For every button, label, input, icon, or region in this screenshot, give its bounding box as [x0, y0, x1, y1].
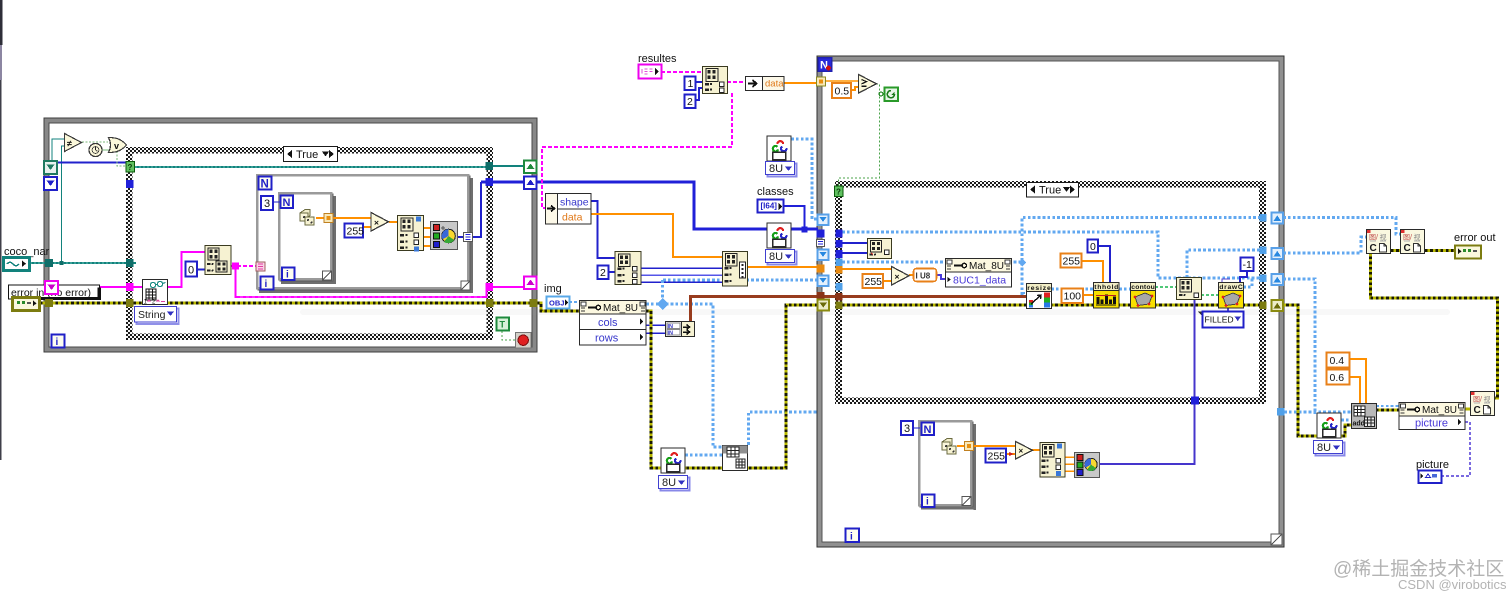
wire: small loop orange dice out: [957, 445, 1015, 447]
wire: teal string inside case1 to right border: [133, 166, 488, 168]
wire: blue shape out down to index icon B: [591, 201, 615, 258]
tunnel blue 2: [817, 230, 825, 238]
svg-text:i: i: [56, 337, 59, 348]
case2 left border tunnel squares: [836, 230, 843, 238]
tunnel orange small loop border: [965, 442, 974, 451]
constant 100: [1062, 289, 1084, 304]
tunnel olive down 8: [818, 300, 830, 311]
wire: cyan 8U icon to table icon: [685, 454, 723, 457]
big for loop (right): [817, 56, 1284, 547]
wire: cyan row y262 to vertical x1022: [842, 261, 1022, 264]
index array icon A (resultes): [703, 67, 728, 94]
case1 teal tunnel left: [126, 259, 134, 267]
tunnel small coerce 3: [817, 240, 825, 247]
tunnel magenta on N-loop border: [256, 262, 265, 271]
wire: pale green dotted neq output to Or gate: [82, 141, 108, 143]
terminal classes I64: [758, 200, 784, 213]
wire: green dotted T const to stop button: [502, 331, 516, 340]
svg-text:0: 0: [188, 265, 194, 277]
constant -1: [1241, 258, 1254, 272]
case structure 1 border: [126, 147, 493, 340]
wire: magenta case1 tunnel to while SR: [493, 286, 524, 288]
wire: -1 down to drawC top: [1240, 271, 1247, 284]
svg-text:×: ×: [1019, 447, 1024, 456]
small loop i terminal: [922, 495, 935, 508]
svg-text:1: 1: [688, 78, 694, 90]
dice icon (left): [300, 210, 314, 226]
wire: cyan thhold to contour: [1119, 288, 1131, 291]
wire: 255d to multiply3: [1006, 453, 1015, 455]
dropdown 8U 2: [766, 250, 797, 265]
svg-text:data: data: [562, 212, 583, 224]
svg-text:2: 2: [687, 96, 693, 108]
wire: cyan table icon up and right to loop border: [749, 412, 819, 445]
shift register green up (while right): [524, 161, 537, 174]
dispose icon 1: [1367, 230, 1391, 255]
Or gate V: [109, 138, 127, 153]
gte comparator: [859, 75, 877, 94]
shift register blue up (while right): [524, 177, 537, 190]
wire: 255b to multiply2: [884, 280, 892, 282]
terminal img OBJ: [547, 297, 570, 309]
wire: olive error right: loop tunnel down around to add icon: [1281, 305, 1352, 436]
case1 olive tunnel right: [486, 299, 494, 307]
dropdown 8U 1: [766, 162, 797, 177]
wire: 0.5 to gte lower input: [851, 87, 860, 90]
constant 255c: [1061, 254, 1082, 268]
svg-text:3: 3: [904, 423, 910, 435]
wire: orange data to big loop tunnel: [784, 82, 818, 84]
svg-text:cols: cols: [598, 317, 618, 329]
wire: magenta error-cluster SR row into case: [56, 286, 144, 288]
svg-text:Mat_8U: Mat_8U: [1422, 405, 1457, 416]
svg-text:shape: shape: [560, 197, 589, 209]
svg-text:i: i: [850, 532, 853, 543]
big loop right border tunnels (up arrows): [1272, 213, 1284, 224]
constant 0b: [1088, 240, 1099, 254]
wire: cyan drawC out joining row: [1243, 278, 1252, 287]
constant 1: [685, 77, 696, 91]
wire: blue tunnels to small icon F: [842, 243, 868, 253]
svg-text:≠: ≠: [67, 139, 72, 149]
inner frame i terminal: [282, 268, 295, 281]
tunnel olive error (while right): [530, 299, 538, 307]
wire: cyan icon C bottom-row to loop tunnel: [663, 279, 818, 282]
tunnel teal coco (while left): [45, 259, 53, 267]
RGB-to-color clock icon (left): [431, 222, 458, 250]
wire: magenta String icon to index chain (up and right): [167, 252, 205, 287]
svg-text:picture: picture: [1416, 459, 1449, 471]
svg-text:OBJ: OBJ: [549, 299, 564, 308]
multiply2 triangle: [892, 267, 910, 286]
colormode icon 1: [767, 136, 791, 161]
svg-text:255: 255: [865, 276, 883, 288]
terminal error in: [13, 298, 40, 311]
wire: olive icon2 to error out: [1425, 249, 1455, 252]
dispose icon 2: [1401, 230, 1425, 255]
wire: orange inside loop to gte: [825, 80, 860, 82]
shift register teal down (while left): [44, 161, 57, 174]
svg-text:255: 255: [1063, 256, 1081, 268]
wire: magenta down to bottom run across case1: [236, 266, 487, 297]
wire: teal branch up to neq input: [62, 146, 67, 263]
svg-text:i: i: [286, 270, 289, 281]
svg-text:v: v: [114, 141, 119, 151]
case1 magenta tunnel left: [126, 283, 134, 291]
colormode icon 2: [767, 223, 791, 248]
case2 right border junctions: [1260, 214, 1267, 222]
wire: cyan loop-bottom tunnel row 412 to add icon: [1284, 411, 1352, 414]
svg-text:True: True: [1039, 185, 1061, 197]
case1 teal tunnel right: [486, 162, 494, 170]
scan from string icon: [143, 280, 168, 306]
wire: green icon D to drawC: [1201, 294, 1219, 296]
svg-text:100: 100: [1064, 291, 1082, 303]
wire: orange dice to tunnel to multiply: [316, 217, 372, 219]
svg-text:i: i: [265, 279, 268, 290]
while loop i terminal: [52, 335, 65, 349]
svg-text:255: 255: [988, 451, 1006, 463]
inner sequence frame (dice loop): [279, 193, 336, 284]
case1 magenta tunnel right: [486, 283, 494, 291]
svg-text:FILLED: FILLED: [1205, 315, 1234, 325]
while loop (left outer): [44, 118, 537, 352]
TRUE boolean constant: [497, 318, 510, 331]
wire: olive icon1 to icon2: [1391, 249, 1401, 252]
constant 255b: [863, 274, 884, 288]
wire: cyan img OBJ to Mat_8U node: [569, 301, 580, 303]
tunnel orange on inner frame border: [324, 214, 333, 223]
wire: multiply out to bundle icon: [389, 221, 398, 223]
wire: olive error row across case2: [842, 304, 1262, 307]
index icon B: [615, 252, 641, 285]
IN IN converter icon: [666, 322, 695, 337]
inner frame N terminal: [281, 196, 294, 210]
for loop N1 count terminal: [259, 177, 272, 191]
wire: classes terminal to column: [784, 206, 805, 229]
tunnel cyan down 1: [818, 215, 829, 226]
wire: constant 2 to index array: [694, 88, 703, 100]
wire: green dotted gte output down to case2 selector: [839, 84, 880, 187]
wire: olive error around bottom to big loop: [646, 305, 818, 468]
svg-text:IN: IN: [668, 331, 674, 337]
wire: 255 to multiply lower input: [362, 226, 371, 228]
String enum dropdown: [135, 307, 179, 325]
svg-text:-1: -1: [1243, 259, 1252, 271]
for loop N1 i terminal: [261, 277, 274, 291]
wire: olive add to Mat node3: [1376, 409, 1399, 412]
label error in (no error): [9, 285, 102, 300]
tunnel cyan down 6: [818, 276, 829, 287]
constant 3 (left): [261, 196, 280, 210]
svg-text:img: img: [544, 283, 562, 295]
svg-text:String: String: [138, 309, 166, 321]
wire: blue icon D bottom down to small loop output: [1099, 299, 1195, 464]
resize icon: [1027, 284, 1052, 309]
node: cyan junction x1022: [1018, 259, 1026, 267]
terminal coco path: [4, 258, 30, 271]
wire: cyan add icon to Mat node3: [1376, 405, 1399, 407]
wire: teal from shift register to neq upper input: [52, 139, 66, 162]
svg-text:error out: error out: [1454, 232, 1496, 244]
case2 selector ? tunnel: [835, 186, 844, 197]
index array icon (left case): [205, 246, 231, 275]
tunnel orange data (big loop left): [817, 77, 826, 86]
svg-text:?: ?: [128, 163, 133, 172]
svg-text:contou: contou: [1131, 284, 1155, 291]
svg-text:×: ×: [374, 218, 379, 228]
case 2 selector label True: [1027, 183, 1079, 198]
wire: teal continues outside case1 to while SR: [492, 165, 526, 167]
small icon F: [868, 239, 892, 259]
svg-text:True: True: [296, 149, 318, 161]
wire: multiply3 to bundle E: [1032, 449, 1040, 451]
wire: orange 0.6 to add icon: [1350, 377, 1360, 403]
wait-ms clock icon: [89, 144, 102, 157]
node: magenta junction diamond: [232, 263, 239, 270]
wire: dark blue from left SR to case selector row: [50, 161, 127, 163]
ghost watermark band: [300, 309, 1450, 315]
wire: teal coco_names from terminal through while+case borders: [29, 262, 136, 264]
wire: olive icon4 up-left to dispose icon1: [1371, 254, 1498, 398]
Mat_8U property node 3: [1399, 403, 1465, 430]
wire: orange data out right-down to icon C: [591, 214, 723, 257]
colormode icon bottom: [661, 448, 685, 473]
svg-text:0.6: 0.6: [1330, 372, 1345, 384]
svg-text:picture: picture: [1415, 418, 1448, 430]
wire: green contour to icon D: [1155, 286, 1177, 288]
wire: brown row into resize: [842, 295, 1027, 298]
wire: violet picture out down to picture terminal: [1442, 422, 1470, 476]
svg-text:Mat_8U: Mat_8U: [603, 303, 638, 314]
node: teal junction dot: [60, 261, 64, 265]
wire: bundle to color box 3 oranges: [424, 228, 432, 246]
dice icon small loop: [942, 439, 956, 455]
wire: constant 0b down to thhold top: [1097, 246, 1110, 284]
wire: orange tunnel row to multiply2: [842, 268, 892, 270]
bundle icon E: [1040, 443, 1065, 478]
wire: IU8 to Mat node2 8UC1_data: [936, 275, 946, 279]
node: blue junction: [802, 227, 808, 233]
for loop N1 (left): [257, 175, 473, 293]
Mat_8U property node 2: [946, 259, 1012, 288]
wire: 255c right-down to thhold top: [1082, 261, 1103, 284]
svg-text:classes: classes: [757, 186, 794, 198]
wire: cyan long row y232 inside case2: [842, 232, 1262, 278]
wire: multiply2 out to IU8 coerce: [909, 274, 914, 276]
svg-text:2: 2: [600, 267, 606, 279]
wire: magenta down-left-down to shape/data cluster: [542, 93, 732, 208]
wire: cyan row 279 tunnel down to colormode3: [1283, 279, 1315, 414]
shift register blue down (while left): [44, 177, 57, 190]
index icon D: [1177, 278, 1202, 300]
wire: 100 to thhold left: [1083, 294, 1094, 296]
loop iteration feedback icon: [879, 88, 898, 102]
wire: bundle E to colorclock2 oranges: [1065, 457, 1075, 471]
bundle icon (left): [398, 216, 424, 252]
add weighted icon: [1352, 404, 1377, 429]
svg-text:N: N: [283, 197, 291, 209]
svg-text:?: ?: [836, 188, 841, 197]
wire: main blue array line y182: [481, 182, 818, 229]
constant 255d: [986, 449, 1007, 463]
svg-text:T: T: [500, 320, 506, 330]
left screen-edge line: [0, 0, 3, 45]
table icon (rows cols grid): [723, 446, 748, 471]
wire: cyan colormode3 to add icon: [1341, 419, 1352, 422]
wire: magenta index output to inner loop tunnel: [231, 265, 259, 267]
wire: icon B to icon C triple lines: [641, 267, 723, 269]
wire: cyan icon1 colormode top to loop tunnel: [791, 139, 818, 219]
wire: cyan row 217 tunnel to dispose icon2: [1283, 218, 1401, 235]
wire: brown IN icon up to resize row: [691, 297, 1028, 324]
stop button: [516, 333, 532, 349]
dispose icon 4: [1471, 392, 1495, 417]
wire: constant 2b to icon B: [608, 271, 615, 273]
IU8 coerce box: [914, 269, 937, 282]
svg-text:resize: resize: [1027, 285, 1051, 292]
wire: cyan Mat node out right then down to table icon: [646, 304, 723, 447]
case1 selector ? tunnel: [126, 162, 135, 173]
drawC icon: [1219, 283, 1244, 309]
wire: clock to Or gate: [101, 149, 109, 151]
tunnel blue coerce on N-loop right border: [464, 233, 473, 242]
small for loop (bottom): [919, 421, 976, 510]
case 1 selector label True: [284, 147, 338, 162]
svg-text:×: ×: [895, 272, 900, 282]
FILLED enum dropdown: [1198, 312, 1244, 328]
RGB-to-color clock icon 2: [1075, 453, 1100, 478]
wire: violet drawC top-left stub: [1222, 279, 1230, 284]
wire: olive Mat node3 to dispose icon4: [1465, 408, 1471, 411]
svg-text:CSDN @virobotics: CSDN @virobotics: [1398, 577, 1507, 592]
wire: olive error inside while loop: [40, 302, 488, 305]
svg-text:0.5: 0.5: [835, 86, 850, 98]
wire: olive error while to Mat node: [537, 303, 580, 311]
wire: olive error outside case1 to while border: [492, 302, 537, 305]
svg-text:thhold: thhold: [1094, 284, 1118, 291]
wire: cyan vertical x1022 with branches: [1022, 218, 1262, 296]
svg-text:N: N: [924, 424, 932, 436]
colormode icon 3: [1317, 413, 1341, 438]
svg-text:8UC1_data: 8UC1_data: [953, 275, 1006, 287]
thhold icon: [1094, 283, 1120, 309]
svg-text:I U8: I U8: [916, 272, 931, 281]
svg-text:N: N: [820, 60, 828, 72]
svg-text:Mat_8U: Mat_8U: [969, 261, 1004, 272]
wire: magenta resultes terminal to index array: [661, 71, 703, 73]
tunnel cyan down 4: [818, 250, 829, 261]
data unbundle node: [746, 77, 785, 91]
wire: constant 0 to index icon: [196, 269, 205, 271]
svg-text:drawC: drawC: [1219, 284, 1243, 291]
constant 2: [685, 95, 696, 109]
constant 0.4: [1327, 353, 1350, 368]
case1 blue tunnel left: [126, 180, 134, 188]
wire: cyan row 253 tunnel to dispose icon1: [1283, 237, 1367, 253]
constant 0.5: [832, 83, 851, 98]
svg-text:rows: rows: [595, 333, 619, 345]
tunnel orange 5: [817, 265, 825, 273]
wire: blue result through loop border up to main line: [458, 182, 481, 237]
constant 0.6: [1327, 370, 1350, 385]
svg-text:resultes: resultes: [638, 53, 677, 65]
node: big cyan junction dot: [657, 298, 669, 310]
wire: orange icon C out to loop tunnel: [747, 266, 818, 268]
constant 3 (bottom): [901, 421, 920, 435]
svg-text:0: 0: [1090, 241, 1096, 253]
svg-text:3: 3: [264, 198, 270, 210]
big loop N terminal: [818, 58, 832, 72]
constant 2b: [598, 266, 609, 280]
multiply3 triangle: [1016, 442, 1033, 460]
multiply triangle (left): [371, 213, 389, 232]
svg-text:IN: IN: [668, 324, 674, 330]
dropdown 8U 3: [1314, 441, 1345, 456]
shift register magenta down (while left): [45, 281, 58, 294]
svg-text:0.4: 0.4: [1330, 355, 1345, 367]
wire: magenta index array to data unbundle: [727, 81, 746, 83]
case structure 2 border: [835, 181, 1266, 404]
case1 blue tunnel right: [486, 178, 494, 186]
wire: blue cols/rows rows to IN icon: [646, 325, 666, 333]
neq compare triangle: [65, 134, 82, 152]
svg-text:N: N: [261, 179, 269, 191]
svg-text:i: i: [926, 497, 929, 508]
tunnel brown 7: [817, 292, 825, 300]
svg-text:data: data: [765, 79, 784, 90]
case1 olive tunnel left: [126, 299, 134, 307]
terminal picture indicator: [1419, 471, 1442, 484]
Mat_8U property node 1: [580, 301, 647, 346]
wire: FILLED up to drawC: [1227, 307, 1229, 311]
svg-text:add: add: [1353, 421, 1365, 428]
small loop N terminal: [922, 423, 935, 437]
tunnel cyan on big loop right border y412: [1277, 408, 1285, 416]
terminal error out: [1455, 246, 1481, 259]
shape/data unbundle node: [546, 194, 592, 225]
wire: cyan vertical from OBJ row dot up: [661, 280, 664, 304]
constant 255 (left): [345, 224, 365, 238]
contour icon: [1131, 283, 1156, 309]
svg-text:255: 255: [347, 226, 365, 238]
bundle icon C: [723, 252, 748, 287]
wire: orange 0.4 to add icon: [1350, 359, 1366, 403]
wire: Or gate output dotted down to selector: [117, 151, 127, 166]
big loop i terminal: [846, 529, 860, 543]
wire: cyan resize to thhold: [1051, 288, 1094, 291]
constant 0: [186, 262, 198, 277]
wire: constant 1 to index array: [694, 81, 703, 83]
shift register magenta up (while right): [524, 277, 537, 290]
svg-text:[I64]: [I64]: [761, 202, 778, 211]
node: blue junction on case2 bottom border: [1191, 397, 1199, 405]
terminal resultes (magenta array): [639, 65, 662, 79]
tunnel olive error (while left): [45, 299, 53, 307]
wire: cyan icon D up to row 250: [1187, 250, 1262, 278]
dropdown 8U bottom: [659, 476, 690, 491]
